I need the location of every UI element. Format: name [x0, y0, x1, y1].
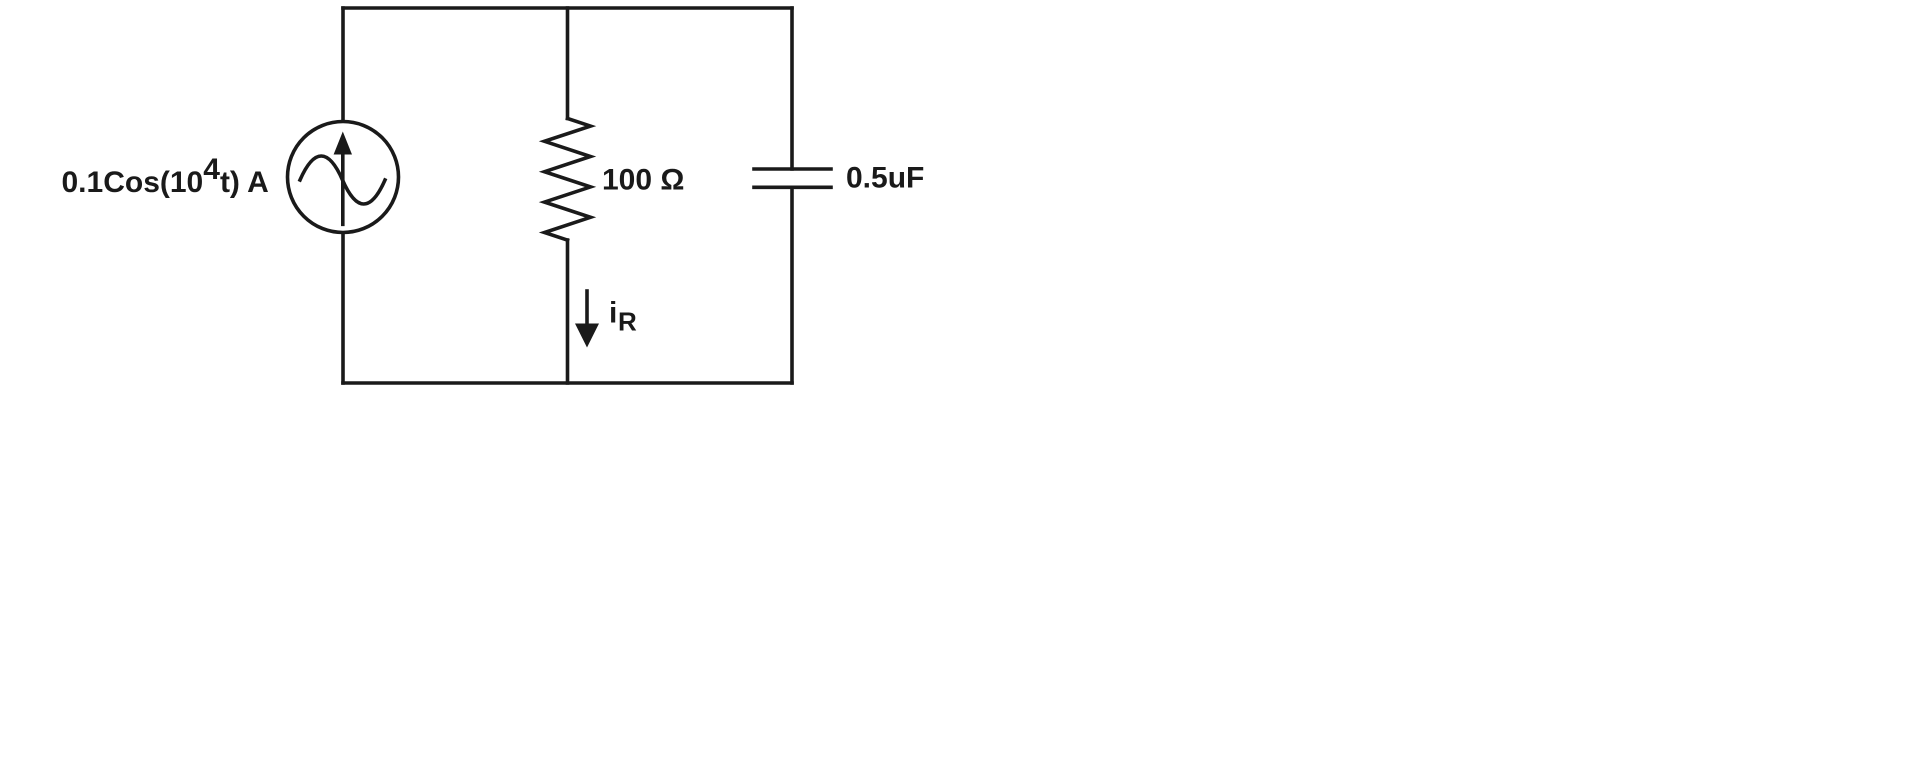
- svg-text:i: i: [609, 297, 617, 330]
- svg-text:R: R: [618, 307, 637, 337]
- svg-text:100 Ω: 100 Ω: [602, 164, 684, 197]
- svg-text:0.5uF: 0.5uF: [846, 162, 924, 195]
